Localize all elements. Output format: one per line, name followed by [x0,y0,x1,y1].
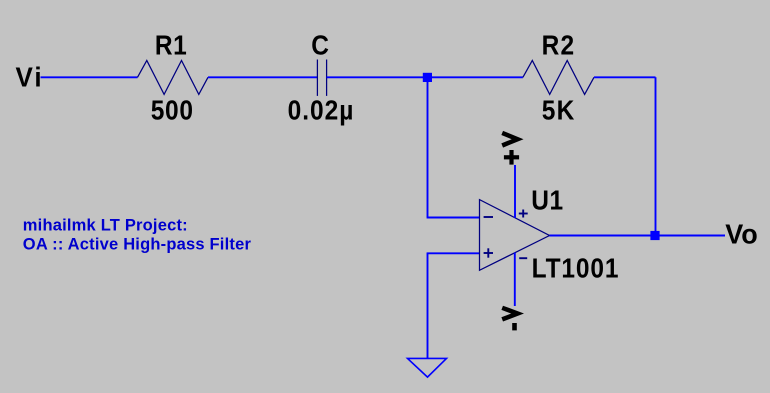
op-amp inverting minus mark [484,216,493,218]
svg-text:C: C [311,29,329,61]
pin V- supply [514,253,516,306]
wire to non-inverting input [427,252,480,254]
wire C to junction [327,76,428,78]
label -V rotated [502,308,517,331]
svg-text:R1: R1 [155,29,187,61]
node junction A square [423,73,432,82]
resistor R2 [523,61,594,95]
op-amp V- minus mark [519,257,527,259]
op-amp non-inverting plus mark [484,248,493,257]
resistor R1 [138,61,209,95]
ground [408,358,447,377]
wire junction down to inverting input [427,77,429,217]
wire non-inverting to ground [427,253,429,358]
wire feedback vertical [655,77,657,235]
node output junction square [650,231,659,240]
wire op-amp output [550,235,726,237]
wire R2 to corner [594,76,656,78]
svg-text:U1: U1 [531,184,563,216]
wire junction to R2 [428,76,523,78]
svg-text:OA :: Active High-pass Filter: OA :: Active High-pass Filter [23,235,252,253]
wire to inverting input [427,217,480,219]
pin V+ supply [514,165,516,218]
wire Vi to R1 [41,76,138,78]
label +V rotated [502,133,519,165]
op-amp U1 triangle [480,200,550,271]
capacitor C [317,60,326,96]
svg-text:mihailmk LT Project:: mihailmk LT Project: [23,217,188,235]
svg-text:LT1001: LT1001 [532,252,620,284]
svg-text:500: 500 [151,94,194,126]
svg-text:0.02µ: 0.02µ [288,94,355,126]
svg-text:5K: 5K [542,94,576,126]
op-amp V+ plus mark [519,210,528,218]
svg-text:R2: R2 [542,29,576,61]
svg-text:Vi: Vi [16,62,44,93]
wire R1 to C [208,76,317,78]
svg-text:Vo: Vo [725,218,757,250]
